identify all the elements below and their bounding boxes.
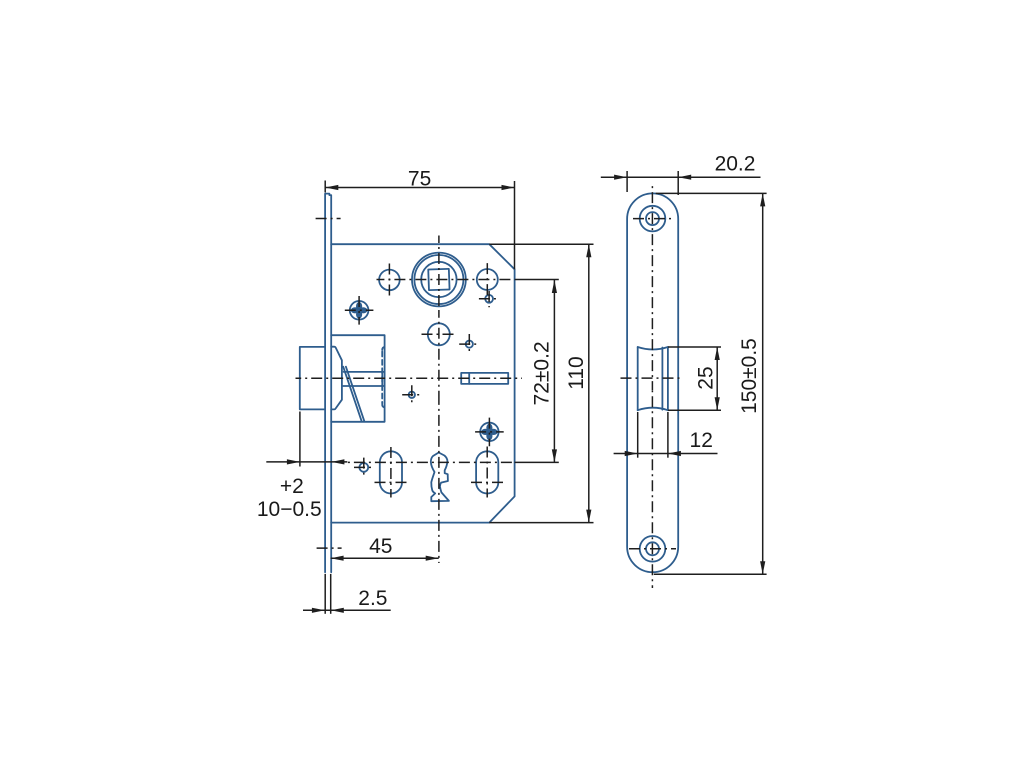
svg-text:12: 12 [690,429,713,452]
dim 72 extensions [515,279,559,281]
oval slot left [380,451,402,493]
side hole vertical ticks [388,264,390,297]
screw bottom tick [629,548,676,550]
svg-text:2.5: 2.5 [358,587,387,610]
dim 12 extensions [637,412,639,458]
dim 25 [716,347,718,410]
latch horizontal centerline [296,377,523,379]
svg-text:+2: +2 [280,475,304,498]
oval slot right [476,451,498,493]
screw rosette bottom [480,423,498,441]
rosette bottom cross [475,431,504,433]
screw rosette top [350,301,369,320]
small pilot hole c (with dot) [409,392,415,398]
pilot hole a cross [479,298,500,300]
latch spring box [331,335,384,422]
faceplate screw tick bottom [317,547,342,549]
screw hole bottom [640,536,666,562]
dim 72±0.2 [553,280,555,462]
small pilot hole d [359,463,368,472]
small pilot hole a [485,295,493,303]
hub horizontal centerline [377,279,515,281]
faceplate screw tick top [316,218,341,220]
ovals lower centerline ticks [375,481,408,483]
latch opening [637,347,639,410]
svg-text:25: 25 [694,366,717,389]
spindle hub outer ring [412,253,466,307]
latch spring (diagonal pair) [343,367,362,422]
dim 2.5 extensions [324,574,326,614]
middle hole horizontal tick [422,333,457,335]
hub side hole left [379,270,400,291]
lower horizontal centerline [340,461,514,463]
svg-text:45: 45 [369,535,392,558]
latch bolt head (protruding) [300,347,325,410]
pilot hole d cross [354,466,374,468]
svg-text:20.2: 20.2 [715,153,756,176]
hidden slot edge (dashed) [382,347,384,350]
faceplate (edge view, vertical strip) [325,194,331,573]
dim 45 [331,557,439,559]
oval vertical centerlines [390,447,392,498]
key cam hole [431,453,449,502]
latch opening tick [621,377,683,379]
spindle square hole [428,269,449,290]
small pilot hole b [466,341,473,348]
dim 12 [614,453,718,455]
hub side hole right [477,269,498,290]
pilot hole c cross [402,394,421,396]
dim 2.5 [303,609,391,611]
dim 75 [324,181,326,193]
dim 20.2 [601,176,761,178]
svg-text:10−0.5: 10−0.5 [257,498,322,521]
dim 20.2 extensions [626,171,628,192]
faceplate vertical centerline [651,184,653,390]
screw hole top [640,206,666,232]
spindle hub inner circle [421,262,456,297]
pilot hole b cross [459,343,479,345]
lock body outline [331,244,514,522]
dim 110 extensions [489,243,593,245]
dim 25 extensions [668,346,721,348]
svg-text:110: 110 [565,356,588,389]
dim 150±0.5 [762,193,764,574]
screw top tick [633,218,672,220]
svg-text:150±0.5: 150±0.5 [738,338,761,414]
dim 150 extensions [656,192,767,194]
dim 110 [588,244,590,522]
dim +2/10-0.5 [299,412,301,467]
svg-text:72±0.2: 72±0.2 [531,341,554,405]
svg-text:75: 75 [408,168,431,191]
latch shaft lines [344,371,385,373]
middle hole below hub [428,323,450,345]
hub vertical centerline [438,236,440,312]
rosette top cross [345,309,374,311]
faceplate plan (stadium) [627,193,678,572]
stop pin cylinder [461,373,508,384]
latch head (inside profile) [331,347,342,410]
